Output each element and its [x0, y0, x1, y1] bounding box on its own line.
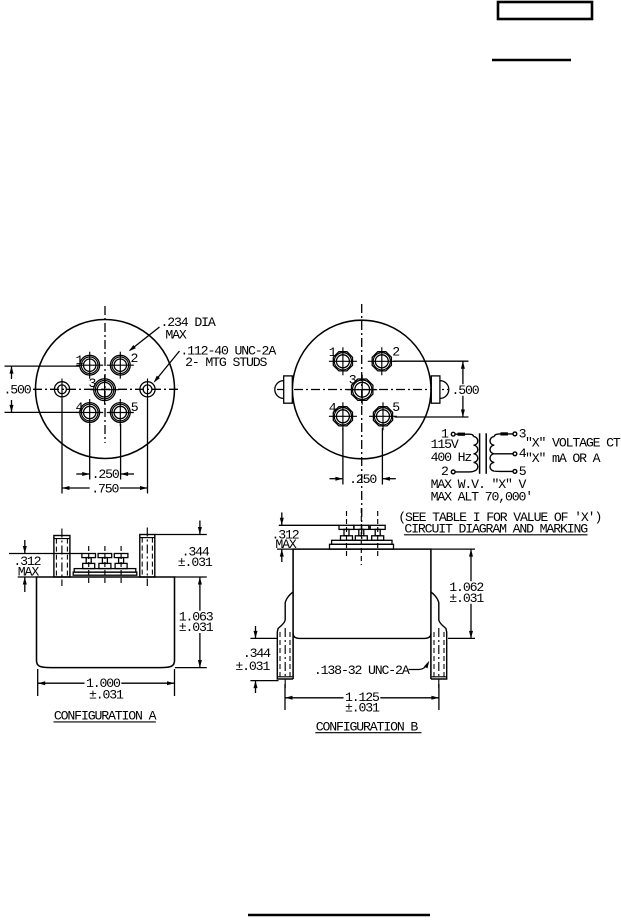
svg-text:.750: .750 — [91, 481, 119, 496]
svg-text:CONFIGURATION A: CONFIGURATION A — [54, 709, 157, 724]
mounting stud left (view A) — [54, 379, 69, 400]
schematic terminal 3 — [513, 432, 517, 436]
dimension .312 MAX (config A) — [9, 540, 82, 592]
dimension .250 (view B) — [330, 428, 396, 485]
dimension 1.125 +-.031 (config B) — [285, 684, 439, 710]
caption B underline — [315, 732, 421, 734]
header underline line — [492, 59, 571, 61]
config A terminal post 3 — [114, 546, 128, 586]
center tap wire to terminal 4 — [494, 453, 513, 455]
svg-text:.138-32 UNC-2A: .138-32 UNC-2A — [314, 663, 410, 678]
caption underline — [404, 534, 588, 536]
svg-text:.250: .250 — [349, 472, 377, 487]
config B case outline circle — [292, 320, 431, 459]
dimension .312 MAX (config B) — [277, 512, 339, 562]
config A terminal post 1 — [82, 546, 96, 586]
label .234 DIA MAX with leader — [129, 327, 160, 351]
svg-text:±.031: ±.031 — [179, 620, 214, 635]
config A mounting stud right — [140, 528, 155, 587]
config B terminal post 3 — [370, 511, 385, 558]
terminal 1 (view B) — [329, 347, 357, 375]
svg-text:.500: .500 — [452, 383, 480, 398]
dimension .500 (view B) — [394, 361, 469, 417]
config B left mounting ear — [275, 376, 293, 403]
secondary winding L2 — [490, 437, 494, 471]
wire secondary winding to terminal 5 — [494, 470, 513, 472]
svg-text:.500: .500 — [4, 382, 32, 397]
dimension 1.063 +-.031 (config A) — [175, 577, 207, 668]
svg-text:5: 5 — [392, 400, 400, 415]
config B right ear and stud — [431, 592, 447, 690]
config A terminal post 2 — [98, 546, 112, 586]
dimension 1.062 +-.031 (config B) — [431, 549, 475, 638]
svg-text:MAX: MAX — [18, 564, 40, 579]
config A horizontal centerline — [33, 388, 181, 390]
svg-text:MAX ALT 70,000': MAX ALT 70,000' — [431, 490, 532, 505]
dimension .344 +-.031 (config B) — [250, 626, 278, 693]
config A case outline circle — [36, 320, 175, 459]
svg-text:±.031: ±.031 — [449, 591, 484, 606]
schematic terminal 1 — [451, 432, 455, 436]
dimension .344 +-.031 (config A) — [155, 521, 207, 578]
schematic terminal 5 — [513, 470, 517, 474]
wire primary winding to terminal 2 — [455, 470, 473, 473]
core line right — [485, 433, 487, 474]
schematic terminal 4 — [513, 452, 517, 456]
terminal 4 (view B) — [329, 402, 357, 430]
label .138-32 UNC-2A with leader — [409, 661, 430, 670]
config B case body — [293, 549, 431, 679]
terminal 2 (view A) — [107, 352, 134, 379]
polarity mark secondary — [500, 432, 508, 435]
terminal 3 (view B) — [347, 375, 377, 405]
dimension .250 (view A) — [76, 424, 134, 480]
svg-text:±.031: ±.031 — [235, 659, 270, 674]
terminal 4 (view A) — [76, 399, 103, 426]
svg-text:.250: .250 — [92, 467, 120, 482]
title block box (top right) — [498, 2, 592, 19]
config A mounting stud left — [54, 529, 70, 587]
svg-text:2: 2 — [131, 351, 138, 366]
config B left ear and stud — [277, 592, 293, 690]
primary winding L1 — [474, 437, 478, 471]
config B right mounting ear — [431, 376, 449, 403]
schematic terminal 2 — [451, 470, 455, 474]
terminal 3 (view A) — [90, 375, 119, 404]
dimension .750 (view A) — [62, 399, 148, 494]
polarity mark primary — [458, 433, 466, 436]
terminal 2 (view B) — [368, 347, 396, 375]
svg-text:400 Hz: 400 Hz — [431, 450, 472, 465]
terminal 5 (view B) — [369, 402, 397, 430]
svg-text:4: 4 — [329, 400, 337, 415]
config B terminal post 2 — [354, 508, 369, 565]
config A terminal base plates — [73, 569, 137, 576]
config B vertical centerline — [361, 304, 363, 540]
svg-text:"X" mA OR A: "X" mA OR A — [525, 451, 601, 466]
svg-text:±.031: ±.031 — [345, 700, 380, 715]
config B case bottom edge — [293, 634, 431, 639]
wire terminal 3 to secondary winding — [494, 434, 513, 437]
dimension .500 (view A) — [5, 366, 81, 412]
svg-text:2: 2 — [392, 344, 399, 359]
terminal 1 (view A) — [76, 352, 103, 379]
svg-text:MAX: MAX — [165, 328, 187, 343]
wire terminal 1 to primary winding — [455, 434, 473, 436]
config B terminal base plates — [330, 540, 394, 549]
config A case body — [37, 577, 175, 668]
svg-text:2- MTG STUDS: 2- MTG STUDS — [185, 355, 267, 370]
label .112-40 UNC-2A 2- MTG STUDS with leader — [154, 351, 180, 383]
mounting stud right (view A) — [140, 379, 155, 400]
config B horizontal centerline — [277, 389, 448, 391]
caption A underline — [54, 721, 156, 723]
terminal 5 (view A) — [107, 399, 134, 426]
config B terminal post 1 — [339, 511, 354, 558]
svg-text:±.031: ±.031 — [178, 555, 213, 570]
svg-text:MAX: MAX — [275, 537, 297, 552]
core line left — [479, 433, 481, 474]
footer line — [248, 914, 430, 916]
svg-text:5: 5 — [131, 400, 139, 415]
config A vertical centerline — [104, 306, 106, 443]
dimension 1.000 +-.031 (config A) — [38, 669, 175, 696]
svg-text:±.031: ±.031 — [89, 688, 124, 703]
svg-text:"X" VOLTAGE CT: "X" VOLTAGE CT — [525, 435, 621, 450]
